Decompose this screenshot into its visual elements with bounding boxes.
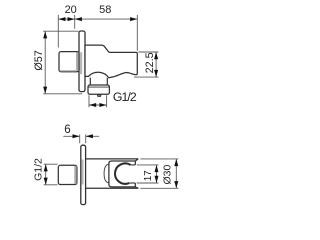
cradle block [109, 159, 138, 188]
22.5 dim extension lines [138, 51, 158, 53]
22.5 dim line [155, 52, 157, 77]
D30 dim line [175, 159, 177, 188]
threaded nub G1/2 (plan) [58, 165, 77, 184]
G1/2 dim extension lines (top view) [88, 95, 90, 107]
svg-text:20: 20 [65, 4, 77, 16]
holder body outline (side) [85, 45, 137, 78]
extension ticks 6 [79, 134, 81, 143]
17 dim extension lines [137, 164, 159, 166]
svg-text:17: 17 [143, 170, 154, 181]
threaded nub G1/2 (side) [59, 52, 79, 72]
svg-text:22.5: 22.5 [144, 52, 156, 73]
17 dim line [156, 165, 158, 183]
outlet dome (plan, left bulge) [104, 164, 109, 183]
svg-text:G1/2: G1/2 [113, 90, 137, 104]
cradle C ring [115, 163, 130, 183]
dim line 6 [63, 135, 79, 137]
dim line D57 [44, 31, 46, 94]
svg-text:6: 6 [64, 124, 70, 136]
extension tick x74.7 [74, 15, 76, 29]
outlet neck [89, 78, 91, 85]
G1/2 dim line [89, 104, 107, 106]
dim line 20/58 [58, 18, 137, 20]
D30 dim extension lines [140, 158, 178, 160]
svg-text:Ø57: Ø57 [33, 50, 45, 70]
body tube bottom edge [86, 187, 139, 189]
wall flange (plan) [81, 145, 86, 204]
hose nut [88, 85, 109, 94]
extension tick x58.3 [57, 15, 59, 48]
cradle lip edges [134, 161, 136, 165]
wall flange (side) [79, 31, 85, 92]
extension line D57 top [43, 30, 78, 32]
outlet nipple notch [98, 95, 101, 96]
svg-text:58: 58 [99, 4, 111, 16]
extension tick x137.3 [136, 15, 138, 51]
G1/2 dim extension lines (plan) [44, 163, 58, 165]
svg-text:Ø30: Ø30 [162, 164, 174, 184]
G1/2 dim line (plan) [45, 164, 47, 185]
svg-text:G1/2: G1/2 [32, 158, 44, 181]
arrowheads top dim [58, 17, 65, 21]
body tube top edge [86, 158, 139, 160]
extension line D57 bottom [43, 93, 82, 95]
